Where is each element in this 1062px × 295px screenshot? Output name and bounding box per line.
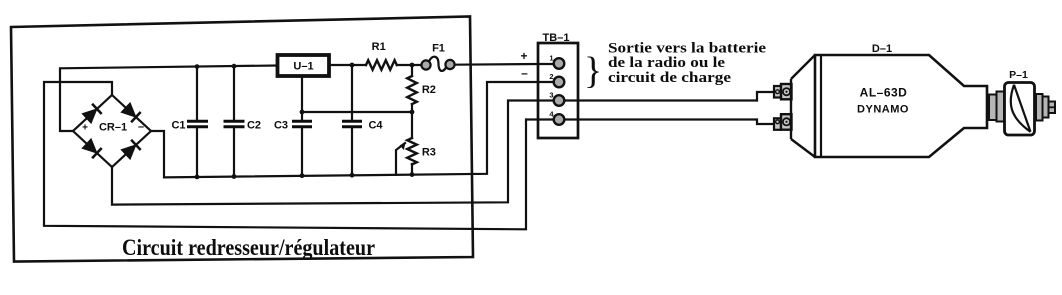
svg-text:+: + bbox=[82, 123, 88, 134]
svg-text:C2: C2 bbox=[247, 119, 261, 131]
svg-text:F1: F1 bbox=[432, 43, 445, 55]
svg-text:C4: C4 bbox=[368, 119, 383, 131]
svg-text:C3: C3 bbox=[274, 119, 288, 131]
svg-text:AL–63D: AL–63D bbox=[860, 86, 908, 100]
svg-text:D–1: D–1 bbox=[872, 43, 892, 55]
svg-text:3: 3 bbox=[549, 91, 553, 100]
svg-text:–: – bbox=[138, 121, 144, 133]
svg-text:}: } bbox=[584, 50, 602, 92]
svg-text:TB–1: TB–1 bbox=[543, 32, 570, 44]
svg-text:DYNAMO: DYNAMO bbox=[857, 104, 909, 116]
svg-text:2: 2 bbox=[549, 72, 553, 81]
svg-text:1: 1 bbox=[549, 54, 553, 63]
svg-text:R1: R1 bbox=[372, 41, 386, 53]
svg-text:circuit de charge: circuit de charge bbox=[608, 70, 731, 86]
svg-text:C1: C1 bbox=[171, 119, 185, 131]
svg-text:de la radio ou le: de la radio ou le bbox=[608, 55, 725, 71]
svg-text:R3: R3 bbox=[422, 147, 436, 159]
svg-text:CR–1: CR–1 bbox=[99, 122, 127, 134]
svg-text:P–1: P–1 bbox=[1009, 69, 1028, 81]
svg-text:U–1: U–1 bbox=[293, 61, 313, 73]
svg-text:Sortie vers la batterie: Sortie vers la batterie bbox=[608, 40, 766, 56]
svg-text:Circuit redresseur/régulateur: Circuit redresseur/régulateur bbox=[122, 235, 375, 260]
svg-text:+: + bbox=[520, 49, 527, 63]
svg-text:–: – bbox=[521, 66, 528, 80]
svg-text:R2: R2 bbox=[422, 84, 436, 96]
